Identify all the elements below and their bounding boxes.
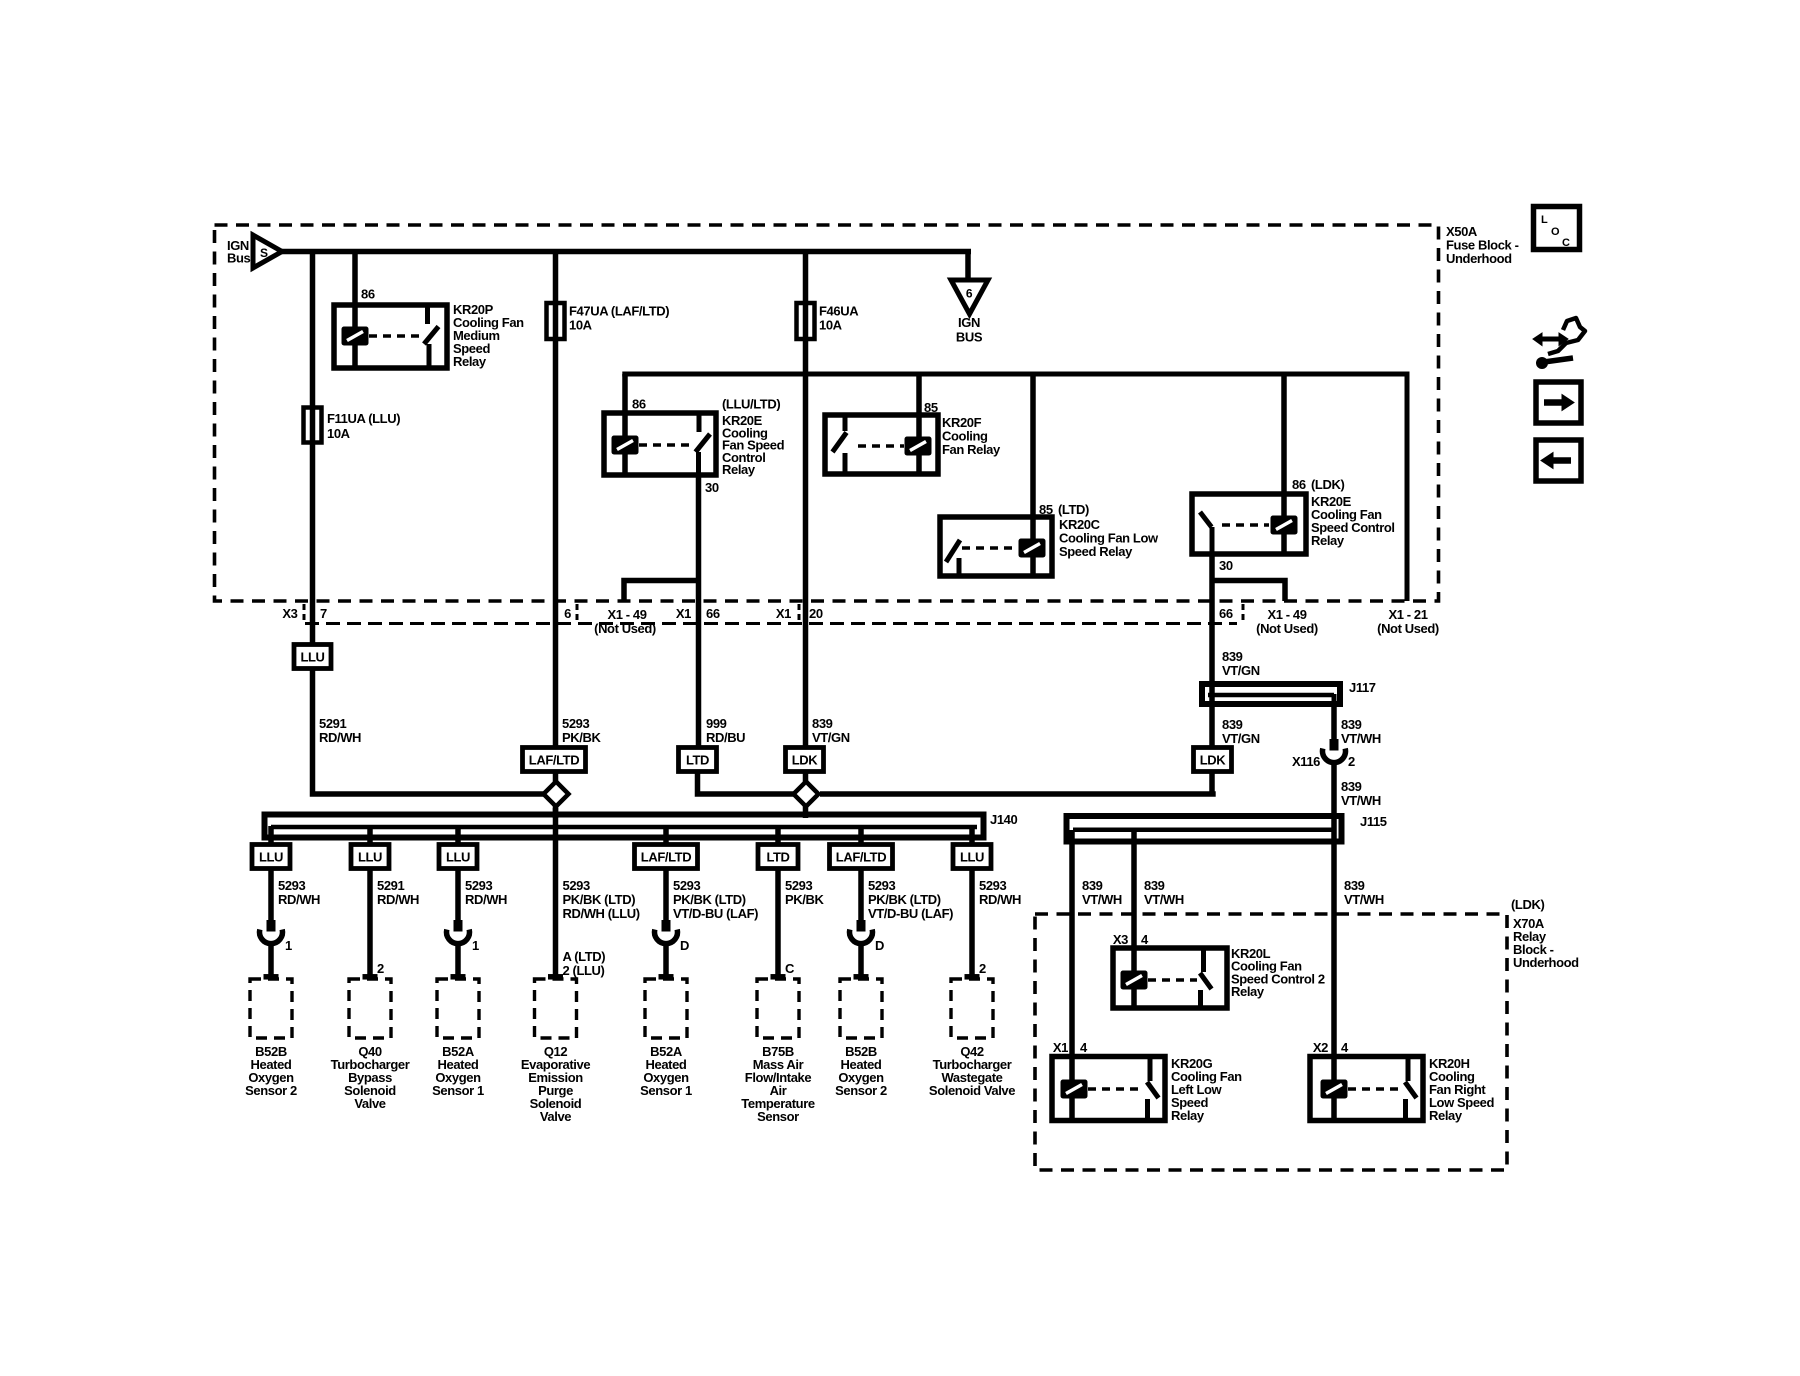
svg-text:66: 66: [1219, 606, 1233, 621]
svg-text:(LLU/LTD): (LLU/LTD): [722, 397, 780, 412]
svg-text:J115: J115: [1360, 814, 1387, 829]
svg-text:X2: X2: [1313, 1040, 1328, 1055]
svg-text:LLU: LLU: [358, 850, 382, 865]
svg-text:10A: 10A: [327, 426, 351, 441]
wire end cap b7: [854, 974, 869, 980]
wire to IGN BUS off-page: [965, 252, 971, 282]
svg-text:VT/D-BU (LAF): VT/D-BU (LAF): [868, 906, 953, 921]
svg-text:2 (LLU): 2 (LLU): [563, 963, 605, 978]
svg-text:LLU: LLU: [300, 650, 324, 665]
wire ignition bus horizontal: [280, 249, 971, 255]
svg-text:VT/WH: VT/WH: [1144, 892, 1184, 907]
splice J115: [1067, 816, 1342, 842]
splice J140: [265, 815, 984, 838]
wire end cap b1: [264, 974, 279, 980]
svg-text:(LDK): (LDK): [1311, 477, 1344, 492]
relay KR20E Cooling Fan Speed Control LLU/LTD: [604, 413, 716, 475]
net LDK right: [1194, 748, 1232, 772]
svg-text:10A: 10A: [569, 318, 593, 333]
svg-text:F47UA (LAF/LTD): F47UA (LAF/LTD): [569, 304, 669, 319]
svg-text:999: 999: [706, 716, 727, 731]
svg-text:839: 839: [1222, 649, 1243, 664]
wire LLU to junction diamond: [313, 668, 548, 794]
svg-text:5293: 5293: [673, 878, 700, 893]
wire LDK right to diamond 2: [820, 791, 1216, 797]
splice J117: [1202, 684, 1340, 704]
net LTD branch 6: [758, 845, 798, 869]
net LLU branch 8: [953, 845, 991, 869]
svg-text:Relay: Relay: [1429, 1108, 1463, 1123]
svg-text:Sensor 1: Sensor 1: [640, 1083, 692, 1098]
svg-text:A (LTD): A (LTD): [563, 949, 606, 964]
IGN BUS off-page triangle 6: [951, 280, 988, 314]
svg-text:PK/BK: PK/BK: [785, 892, 824, 907]
net LDK: [786, 748, 824, 772]
svg-text:PK/BK (LTD): PK/BK (LTD): [673, 892, 746, 907]
svg-text:4: 4: [1341, 1040, 1349, 1055]
fuse F46UA: [797, 303, 815, 339]
svg-text:LDK: LDK: [1200, 753, 1227, 768]
relay KR20F Cooling Fan Relay: [825, 415, 938, 474]
svg-text:VT/WH: VT/WH: [1344, 892, 1384, 907]
svg-text:X1 - 21: X1 - 21: [1388, 607, 1427, 622]
svg-text:839: 839: [1344, 878, 1365, 893]
svg-text:VT/D-BU (LAF): VT/D-BU (LAF): [673, 906, 758, 921]
svg-text:X3: X3: [282, 606, 297, 621]
wire branch 1 J140 to B52B: [268, 826, 274, 921]
svg-text:1: 1: [472, 938, 479, 953]
svg-text:Valve: Valve: [540, 1109, 571, 1124]
fuse block X50A dashed outline: [215, 225, 1439, 601]
net LAF/LTD branch 7: [830, 845, 893, 869]
svg-text:X1: X1: [1053, 1040, 1068, 1055]
net LLU branch 2: [351, 845, 389, 869]
svg-text:Relay: Relay: [1171, 1108, 1205, 1123]
svg-text:Valve: Valve: [354, 1096, 385, 1111]
svg-text:10A: 10A: [819, 318, 843, 333]
svg-text:839: 839: [1222, 717, 1243, 732]
net LLU branch 1: [252, 845, 290, 869]
svg-text:5293: 5293: [278, 878, 305, 893]
svg-text:J117: J117: [1349, 680, 1376, 695]
wire branch 3 J140 to B52A: [455, 826, 461, 921]
svg-text:O: O: [1551, 226, 1560, 238]
wire X116 to J115 to KR20H: [1331, 762, 1337, 1118]
net LLU: [294, 645, 331, 669]
svg-text:5293: 5293: [465, 878, 492, 893]
svg-text:C: C: [1562, 237, 1570, 249]
svg-text:Relay: Relay: [1311, 533, 1345, 548]
svg-text:Speed Relay: Speed Relay: [1059, 544, 1133, 559]
svg-text:Solenoid Valve: Solenoid Valve: [929, 1083, 1015, 1098]
svg-text:RD/WH: RD/WH: [377, 892, 419, 907]
svg-text:RD/WH: RD/WH: [278, 892, 320, 907]
wire branch 6 J140 to B75B: [775, 826, 781, 979]
wire bus to F11UA fuse to pin X3-7: [310, 252, 316, 646]
icon LOC box: [1534, 207, 1580, 250]
wire rail end to pin X1-21: [1405, 374, 1410, 601]
wire end cap b2: [363, 974, 378, 980]
svg-text:X3: X3: [1113, 932, 1128, 947]
svg-text:LDK: LDK: [792, 753, 819, 768]
svg-text:X116: X116: [1292, 754, 1320, 769]
relay KR20E Cooling Fan Speed Control LDK: [1192, 494, 1306, 554]
wire stub to pin X1-49 not used: [624, 581, 699, 602]
svg-text:Bus: Bus: [227, 251, 251, 266]
svg-text:5291: 5291: [319, 716, 346, 731]
svg-text:5293: 5293: [785, 878, 812, 893]
wire stub to pin X1-49 not used right: [1212, 581, 1285, 602]
wire branch 2 J140 to Q40: [367, 826, 373, 979]
svg-text:BUS: BUS: [956, 330, 983, 345]
svg-text:F46UA: F46UA: [819, 304, 859, 319]
svg-text:86: 86: [632, 397, 646, 412]
svg-text:RD/WH: RD/WH: [979, 892, 1021, 907]
svg-text:Sensor: Sensor: [757, 1109, 799, 1124]
wire relay feed rail: [622, 372, 1409, 377]
svg-text:X1 - 49: X1 - 49: [1267, 607, 1306, 622]
svg-text:Sensor 1: Sensor 1: [432, 1083, 484, 1098]
svg-text:5293: 5293: [868, 878, 895, 893]
svg-text:Relay: Relay: [453, 354, 487, 369]
svg-text:L: L: [1541, 214, 1548, 226]
svg-text:86: 86: [1292, 477, 1306, 492]
svg-text:839: 839: [1144, 878, 1165, 893]
wire bus to F46UA fuse to pin X1-20: [803, 252, 809, 749]
svg-text:LAF/LTD: LAF/LTD: [529, 753, 579, 768]
wire branch 7 J140 to B52B sensor2: [858, 826, 864, 921]
junction diamond 2: [794, 782, 819, 807]
wire end cap b6: [771, 974, 786, 980]
svg-text:5293: 5293: [979, 878, 1006, 893]
svg-text:5293: 5293: [563, 878, 590, 893]
wire rail to KR20E LDK coil 86: [1281, 374, 1287, 552]
icon back arrow box: [1536, 440, 1581, 481]
svg-text:LTD: LTD: [766, 850, 789, 865]
svg-text:839: 839: [812, 716, 833, 731]
wire branch 4 diamond 1 through J140 to Q12: [553, 808, 559, 979]
relay KR20H Cooling Fan Right Low Speed Relay: [1310, 1057, 1423, 1121]
svg-text:LLU: LLU: [960, 850, 984, 865]
svg-text:Sensor 2: Sensor 2: [245, 1083, 297, 1098]
net LLU branch 3: [439, 845, 477, 869]
svg-text:LAF/LTD: LAF/LTD: [641, 850, 691, 865]
svg-text:2: 2: [1348, 754, 1355, 769]
fuse F47UA: [547, 303, 565, 339]
svg-text:4: 4: [1080, 1040, 1088, 1055]
svg-text:LTD: LTD: [686, 753, 709, 768]
svg-text:LLU: LLU: [259, 850, 283, 865]
svg-text:X1 - 49: X1 - 49: [607, 607, 646, 622]
wire end cap b8: [965, 974, 980, 980]
wire branch 8 J140 to Q42: [969, 826, 975, 979]
svg-text:5293: 5293: [562, 716, 589, 731]
svg-text:Fan Relay: Fan Relay: [942, 442, 1001, 457]
connector X116 pin 2: [1330, 739, 1339, 751]
wire rail to KR20F coil 85: [916, 374, 922, 472]
component B52A Heated Oxygen Sensor 1 dashed box: [437, 979, 479, 1038]
net LTD: [679, 748, 717, 772]
svg-text:2: 2: [377, 961, 384, 976]
relay KR20G Cooling Fan Left Low Speed Relay: [1052, 1057, 1165, 1121]
relay block X70A dashed outline: [1035, 914, 1507, 1170]
wire bus to KR20P coil 86: [352, 252, 358, 366]
component B52B Heated Oxygen Sensor 2 dashed box b7: [840, 979, 882, 1038]
svg-text:Underhood: Underhood: [1446, 251, 1512, 266]
svg-text:66: 66: [706, 606, 720, 621]
fuse F11UA: [304, 408, 322, 443]
svg-text:VT/WH: VT/WH: [1082, 892, 1122, 907]
svg-text:20: 20: [809, 606, 823, 621]
svg-text:VT/GN: VT/GN: [1222, 663, 1260, 678]
svg-text:839: 839: [1341, 717, 1362, 732]
wire bus to F47UA fuse to pin 6: [553, 252, 559, 749]
icon forward arrow box: [1536, 382, 1581, 423]
wire rail to KR20C coil 85: [1030, 374, 1036, 574]
svg-text:(LDK): (LDK): [1511, 897, 1544, 912]
component Q42 Turbocharger Wastegate Solenoid Valve dashed box: [951, 979, 993, 1038]
svg-text:VT/WH: VT/WH: [1341, 731, 1381, 746]
wire branch 5 J140 to B52A sensor1: [663, 826, 669, 921]
wire J115 to KR20G coil: [1069, 830, 1075, 1118]
wire end cap b4: [548, 974, 563, 980]
svg-text:(LTD): (LTD): [1058, 502, 1089, 517]
svg-text:7: 7: [320, 606, 327, 621]
component B52A Heated Oxygen Sensor 1 dashed box b5: [645, 979, 687, 1038]
connector pin D b7: [857, 920, 866, 932]
svg-text:D: D: [680, 938, 689, 953]
svg-text:(Not Used): (Not Used): [1377, 621, 1439, 636]
wire end cap b3: [451, 974, 466, 980]
component Q40 Turbocharger Bypass Solenoid Valve dashed box: [349, 979, 391, 1038]
wire J117 to LDK box: [1209, 704, 1215, 794]
relay KR20P: [334, 305, 447, 368]
svg-text:PK/BK (LTD): PK/BK (LTD): [868, 892, 941, 907]
wire J117 middle to right output: [1332, 694, 1337, 706]
svg-text:4: 4: [1141, 932, 1149, 947]
svg-text:VT/GN: VT/GN: [812, 730, 850, 745]
svg-text:VT/WH: VT/WH: [1341, 793, 1381, 808]
component B75B Mass Air Flow Intake Air Temperature Sensor dashed box: [757, 979, 799, 1038]
svg-text:(Not Used): (Not Used): [1256, 621, 1318, 636]
svg-text:86: 86: [361, 287, 375, 302]
svg-text:F11UA (LLU): F11UA (LLU): [327, 411, 400, 426]
relay KR20L Cooling Fan Speed Control 2 Relay: [1113, 948, 1227, 1008]
connector pin 1 b3: [454, 920, 463, 932]
svg-text:839: 839: [1082, 878, 1103, 893]
connector pin 1 b1: [267, 920, 276, 932]
wire J117 to X116: [1331, 704, 1337, 740]
svg-text:D: D: [875, 938, 884, 953]
svg-text:X1: X1: [776, 606, 791, 621]
component B52B Heated Oxygen Sensor 2 dashed box: [250, 979, 292, 1038]
connector face dashed line: [305, 622, 1237, 625]
svg-text:6: 6: [966, 287, 973, 301]
svg-text:PK/BK: PK/BK: [562, 730, 601, 745]
svg-text:LLU: LLU: [446, 850, 470, 865]
net LAF/LTD branch 5: [635, 845, 698, 869]
svg-text:Relay: Relay: [722, 462, 756, 477]
svg-text:Underhood: Underhood: [1513, 955, 1579, 970]
svg-text:IGN: IGN: [958, 315, 980, 330]
wire rail to KR20E coil 86: [622, 374, 628, 473]
svg-text:6: 6: [564, 606, 571, 621]
component Q12 Evaporative Emission Purge Solenoid Valve dashed box: [535, 979, 577, 1038]
wire end cap b5: [659, 974, 674, 980]
svg-text:(Not Used): (Not Used): [594, 621, 656, 636]
wire KR20E LDK pin 30 to pin 66: [1209, 554, 1215, 704]
svg-text:VT/GN: VT/GN: [1222, 731, 1260, 746]
svg-text:PK/BK (LTD): PK/BK (LTD): [563, 892, 636, 907]
wire LAF/LTD into diamond 1: [553, 771, 559, 818]
svg-text:RD/WH: RD/WH: [319, 730, 361, 745]
wire J115 to KR20L coil: [1131, 828, 1137, 1006]
net LAF/LTD: [523, 748, 586, 772]
relay KR20C Cooling Fan Low Speed Relay: [940, 517, 1052, 576]
icon arrows and wrench: [1533, 318, 1585, 369]
svg-text:Sensor 2: Sensor 2: [835, 1083, 887, 1098]
svg-text:839: 839: [1341, 779, 1362, 794]
wire KR20E pin 30 to pin X1-66: [696, 475, 702, 748]
svg-text:S: S: [260, 246, 268, 260]
svg-text:J140: J140: [990, 812, 1017, 827]
svg-text:C: C: [785, 961, 795, 976]
svg-text:RD/WH (LLU): RD/WH (LLU): [563, 906, 640, 921]
IGN Bus source triangle S: [253, 235, 282, 268]
svg-text:RD/BU: RD/BU: [706, 730, 745, 745]
svg-text:1: 1: [285, 938, 292, 953]
svg-text:30: 30: [705, 480, 719, 495]
svg-text:Relay: Relay: [1231, 984, 1265, 999]
svg-text:5291: 5291: [377, 878, 404, 893]
svg-text:30: 30: [1219, 558, 1233, 573]
svg-text:X1: X1: [676, 606, 691, 621]
connector pin D b5: [662, 920, 671, 932]
junction diamond 1: [544, 782, 569, 807]
wire LTD to junction diamond 2: [698, 771, 801, 794]
svg-text:LAF/LTD: LAF/LTD: [836, 850, 886, 865]
svg-text:RD/WH: RD/WH: [465, 892, 507, 907]
svg-text:2: 2: [979, 961, 986, 976]
wire LDK into diamond 2: [803, 771, 809, 818]
